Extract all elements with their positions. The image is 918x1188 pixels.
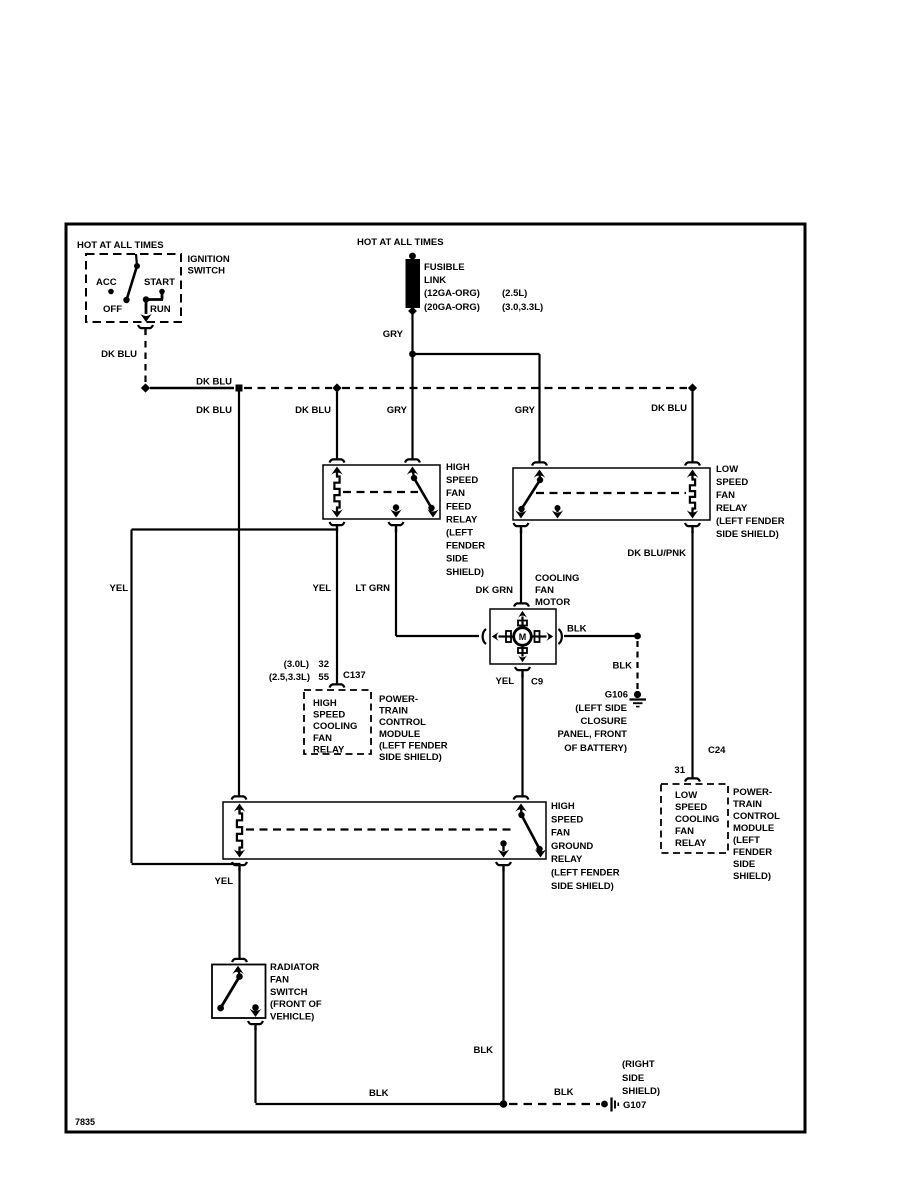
svg-text:(LEFT: (LEFT bbox=[446, 528, 473, 539]
connector C137 label bbox=[343, 670, 366, 681]
wire GRY branch to low speed relay bbox=[413, 354, 540, 463]
wire BLK radiator switch to splice bbox=[256, 1028, 502, 1104]
svg-text:SIDE: SIDE bbox=[446, 554, 468, 565]
wire LT GRN from feed relay to motor bbox=[396, 530, 479, 636]
relay K2 name label bbox=[716, 464, 785, 540]
svg-text:LOW: LOW bbox=[675, 790, 697, 801]
svg-text:HIGH: HIGH bbox=[551, 801, 575, 812]
svg-text:(LEFT SIDE: (LEFT SIDE bbox=[575, 703, 627, 714]
radiator fan switch output bbox=[250, 1004, 262, 1017]
node BLK splice bbox=[500, 1100, 508, 1108]
pin 31 label bbox=[674, 765, 685, 776]
ground G106 labels bbox=[558, 690, 629, 755]
connector at low speed relay coil bbox=[685, 462, 700, 465]
svg-text:MODULE: MODULE bbox=[733, 823, 774, 834]
svg-text:(2.5,3.3L): (2.5,3.3L) bbox=[269, 672, 310, 683]
label DK BLU (on horizontal wire) bbox=[196, 377, 232, 388]
svg-text:PANEL, FRONT: PANEL, FRONT bbox=[558, 729, 628, 740]
svg-text:FAN: FAN bbox=[446, 488, 465, 499]
svg-text:GROUND: GROUND bbox=[551, 841, 593, 852]
connector at low speed relay switch bbox=[532, 462, 547, 465]
svg-text:(20GA-ORG): (20GA-ORG) bbox=[424, 302, 480, 313]
svg-text:SHIELD): SHIELD) bbox=[733, 871, 771, 882]
svg-text:MODULE: MODULE bbox=[379, 729, 420, 740]
connector at motor top bbox=[514, 603, 529, 606]
wire DK BLU dashed bus to right bbox=[244, 387, 332, 389]
svg-text:OF BATTERY): OF BATTERY) bbox=[564, 743, 627, 754]
svg-text:HIGH: HIGH bbox=[313, 698, 337, 709]
wire BLK dashed to G106 bbox=[636, 641, 638, 690]
svg-text:FAN: FAN bbox=[551, 828, 570, 839]
PCM2 module name label bbox=[733, 787, 780, 882]
svg-text:FENDER: FENDER bbox=[733, 847, 772, 858]
svg-text:DK BLU: DK BLU bbox=[196, 377, 232, 388]
svg-text:COOLING: COOLING bbox=[535, 573, 579, 584]
wire YEL from motor to ground relay bbox=[521, 675, 523, 797]
svg-text:FAN: FAN bbox=[535, 585, 554, 596]
svg-text:G107: G107 bbox=[623, 1100, 646, 1111]
label LT GRN bbox=[355, 583, 390, 594]
svg-text:MOTOR: MOTOR bbox=[535, 597, 570, 608]
relay K1 dashed link bbox=[343, 491, 418, 493]
relay K3 coil bbox=[234, 804, 246, 858]
connector below radiator fan switch bbox=[248, 1021, 263, 1030]
svg-text:SPEED: SPEED bbox=[675, 802, 707, 813]
svg-text:COOLING: COOLING bbox=[675, 814, 719, 825]
PCM low speed cooling fan relay box (dashed) bbox=[661, 784, 728, 853]
motor right connector paren bbox=[559, 629, 562, 644]
svg-text:32: 32 bbox=[318, 659, 329, 670]
svg-text:(LEFT: (LEFT bbox=[733, 835, 760, 846]
label YEL and C9 bbox=[496, 676, 544, 688]
svg-text:SIDE SHIELD): SIDE SHIELD) bbox=[551, 881, 614, 892]
svg-text:SIDE: SIDE bbox=[733, 859, 755, 870]
connector below K2 coil bbox=[685, 523, 700, 533]
relay K1 HIGH SPEED FAN FEED RELAY box bbox=[323, 465, 440, 519]
node splice DK BLU at feed relay branch bbox=[332, 383, 341, 392]
diagram number 7835 bbox=[75, 1117, 95, 1127]
ignition switch RUN feed with arrow bbox=[140, 292, 163, 323]
svg-text:POWER-: POWER- bbox=[733, 787, 772, 798]
relay K3 HIGH SPEED FAN GROUND RELAY box bbox=[223, 802, 546, 859]
wire BLK from motor to G106 bbox=[564, 635, 638, 637]
svg-text:YEL: YEL bbox=[496, 676, 515, 687]
label COOLING FAN MOTOR bbox=[535, 573, 579, 608]
svg-text:C24: C24 bbox=[708, 745, 726, 756]
relay K2 dashed link bbox=[536, 492, 686, 494]
cooling fan motor M1 box bbox=[490, 609, 556, 664]
fusible link F1 bbox=[406, 253, 421, 316]
svg-text:DK BLU/PNK: DK BLU/PNK bbox=[627, 548, 686, 559]
svg-text:(3.0,3.3L): (3.0,3.3L) bbox=[502, 302, 543, 313]
node junction square DK BLU bbox=[236, 385, 243, 392]
node GRY splice bbox=[409, 351, 416, 358]
relay K3 name label bbox=[551, 801, 620, 892]
svg-text:IGNITION: IGNITION bbox=[188, 254, 230, 265]
ignition switch blade (B+ to OFF) bbox=[123, 254, 140, 303]
svg-text:(LEFT FENDER: (LEFT FENDER bbox=[379, 740, 448, 751]
svg-text:(2.5L): (2.5L) bbox=[502, 288, 527, 299]
svg-text:SWITCH: SWITCH bbox=[188, 266, 226, 277]
wire YEL from feed relay coil down to C137 bbox=[336, 530, 338, 685]
relay K1 output pin arrow bbox=[390, 504, 402, 517]
label C24 bbox=[708, 745, 726, 756]
svg-text:FUSIBLE: FUSIBLE bbox=[424, 262, 465, 273]
svg-text:OFF: OFF bbox=[103, 304, 122, 315]
svg-text:HOT AT ALL TIMES: HOT AT ALL TIMES bbox=[357, 237, 444, 248]
label HOT AT ALL TIMES (left) bbox=[77, 240, 164, 251]
connector below feed relay coil bbox=[330, 522, 345, 531]
ground G107 labels bbox=[622, 1059, 660, 1111]
relay K1 name label bbox=[446, 462, 485, 578]
wire GRY from fusible link bbox=[411, 314, 413, 354]
svg-text:FAN: FAN bbox=[313, 733, 332, 744]
pin labels 32 55 at C137 bbox=[269, 659, 330, 683]
ground G106 symbol bbox=[630, 691, 647, 707]
svg-text:BLK: BLK bbox=[554, 1087, 574, 1098]
label BLK (G106) bbox=[612, 661, 632, 672]
label DK BLU/PNK bbox=[627, 548, 686, 559]
relay K1 switch bbox=[407, 467, 439, 518]
svg-text:HIGH: HIGH bbox=[446, 462, 470, 473]
connector C24 arch into PCM bbox=[685, 778, 700, 781]
svg-text:7835: 7835 bbox=[75, 1117, 95, 1127]
wire BLK dashed to G107 bbox=[509, 1103, 600, 1105]
label YEL (to radiator switch) bbox=[215, 876, 234, 887]
relay K3 dashed link bbox=[246, 828, 515, 830]
PCM internal relay label bbox=[313, 698, 357, 755]
ground G107 symbol bbox=[601, 1098, 618, 1112]
svg-text:FENDER: FENDER bbox=[446, 541, 485, 552]
motor left connector paren bbox=[483, 629, 486, 644]
wire DK BLU to ground relay coil (long) bbox=[238, 392, 240, 797]
svg-text:SIDE: SIDE bbox=[622, 1073, 644, 1084]
connector C9 below motor bbox=[515, 667, 530, 677]
svg-text:DK BLU: DK BLU bbox=[295, 405, 331, 416]
svg-text:LOW: LOW bbox=[716, 464, 738, 475]
wire DK BLU dashed bus continues bbox=[342, 387, 687, 389]
wire YEL loop left branch bbox=[132, 530, 339, 865]
label YEL (left loop) bbox=[110, 583, 129, 594]
svg-text:55: 55 bbox=[318, 672, 329, 683]
node splice ignition DK BLU bbox=[141, 383, 150, 392]
ignition switch ACC contact bbox=[108, 289, 114, 295]
svg-text:GRY: GRY bbox=[515, 405, 536, 416]
svg-text:RELAY: RELAY bbox=[675, 838, 707, 849]
svg-text:TRAIN: TRAIN bbox=[379, 706, 408, 717]
svg-text:FAN: FAN bbox=[675, 826, 694, 837]
relay K3 switch bbox=[515, 804, 546, 858]
relay K2 switch bbox=[515, 470, 545, 519]
PCM module name label bbox=[379, 694, 448, 763]
svg-text:DK BLU: DK BLU bbox=[101, 349, 137, 360]
svg-text:CONTROL: CONTROL bbox=[733, 811, 780, 822]
connector below K3 output bbox=[496, 862, 511, 871]
relay K1 coil bbox=[331, 467, 343, 518]
svg-text:FAN: FAN bbox=[716, 490, 735, 501]
wire DK BLU to low speed relay coil bbox=[691, 392, 693, 463]
svg-text:BLK: BLK bbox=[369, 1088, 389, 1099]
svg-text:GRY: GRY bbox=[383, 329, 404, 340]
svg-text:RELAY: RELAY bbox=[446, 514, 478, 525]
svg-text:START: START bbox=[144, 277, 175, 288]
svg-text:SIDE SHIELD): SIDE SHIELD) bbox=[379, 752, 442, 763]
label DK GRN bbox=[476, 585, 514, 596]
label BLK (ground relay) bbox=[473, 1045, 493, 1056]
svg-text:SIDE SHIELD): SIDE SHIELD) bbox=[716, 529, 779, 540]
svg-text:CLOSURE: CLOSURE bbox=[581, 716, 627, 727]
svg-text:(LEFT FENDER: (LEFT FENDER bbox=[716, 516, 785, 527]
svg-text:DK GRN: DK GRN bbox=[476, 585, 514, 596]
connector at radiator fan switch bbox=[232, 959, 247, 962]
svg-text:RELAY: RELAY bbox=[551, 854, 583, 865]
label BLK (motor) bbox=[567, 624, 587, 635]
connector at feed relay switch bbox=[405, 459, 420, 462]
label GRY (fusible link) bbox=[383, 329, 404, 340]
svg-text:DK BLU: DK BLU bbox=[196, 405, 232, 416]
svg-text:C9: C9 bbox=[531, 677, 543, 688]
relay K2 output pin arrow bbox=[552, 505, 564, 519]
svg-text:COOLING: COOLING bbox=[313, 721, 357, 732]
fusible link labels bbox=[424, 262, 543, 313]
ignition switch box bbox=[86, 254, 181, 322]
ignition switch contact labels ACC START OFF RUN bbox=[96, 277, 175, 315]
svg-text:VEHICLE): VEHICLE) bbox=[270, 1012, 314, 1023]
svg-text:YEL: YEL bbox=[215, 876, 234, 887]
svg-text:RELAY: RELAY bbox=[313, 744, 345, 755]
ignition switch name label bbox=[188, 254, 230, 277]
svg-text:FEED: FEED bbox=[446, 501, 471, 512]
svg-text:TRAIN: TRAIN bbox=[733, 799, 762, 810]
wire DK GRN low speed relay to motor bbox=[520, 531, 522, 604]
svg-text:(LEFT FENDER: (LEFT FENDER bbox=[551, 868, 620, 879]
connector below feed relay output bbox=[389, 522, 404, 532]
svg-text:SPEED: SPEED bbox=[313, 710, 345, 721]
label HOT AT ALL TIMES (center) bbox=[357, 237, 444, 248]
radiator fan switch S2 box bbox=[212, 965, 266, 1019]
svg-text:RADIATOR: RADIATOR bbox=[270, 962, 319, 973]
svg-text:(3.0L): (3.0L) bbox=[284, 659, 309, 670]
motor internal arrows bbox=[492, 611, 553, 662]
connector at feed relay coil bbox=[330, 459, 345, 462]
PCM2 internal relay label bbox=[675, 790, 719, 849]
svg-text:SPEED: SPEED bbox=[446, 475, 478, 486]
svg-text:M: M bbox=[519, 632, 527, 642]
wire DK BLU to feed relay coil bbox=[336, 392, 338, 460]
connector C137 arch into PCM bbox=[330, 684, 345, 687]
svg-text:(RIGHT: (RIGHT bbox=[622, 1059, 655, 1070]
connector at ground relay switch bbox=[514, 796, 529, 799]
wire DK BLU/PNK from K2 coil to PCM C24 bbox=[691, 531, 693, 779]
label BLK (to G107) bbox=[554, 1087, 574, 1098]
svg-text:SPEED: SPEED bbox=[716, 477, 748, 488]
wire GRY down to feed relay bbox=[411, 354, 413, 460]
wire BLK ground relay down bbox=[502, 869, 504, 1102]
svg-text:YEL: YEL bbox=[313, 583, 332, 594]
svg-text:BLK: BLK bbox=[473, 1045, 493, 1056]
connector below K2 switch bbox=[514, 523, 529, 533]
label DK BLU (ignition output) bbox=[101, 349, 137, 360]
svg-text:SPEED: SPEED bbox=[551, 814, 583, 825]
svg-text:LT GRN: LT GRN bbox=[355, 583, 390, 594]
PCM high speed cooling fan relay box (dashed) bbox=[304, 690, 371, 754]
wire DK BLU dashed from ignition switch bbox=[144, 341, 146, 382]
svg-text:SWITCH: SWITCH bbox=[270, 987, 308, 998]
connector below K3 coil bbox=[232, 862, 247, 871]
svg-text:(FRONT OF: (FRONT OF bbox=[270, 999, 322, 1010]
node BLK at G106 drop bbox=[634, 633, 641, 640]
svg-text:YEL: YEL bbox=[110, 583, 129, 594]
radiator fan switch name label bbox=[270, 962, 322, 1023]
node splice DK BLU at low speed relay branch bbox=[688, 383, 697, 392]
relay K2 coil bbox=[687, 470, 699, 519]
cooling fan motor M1 symbol bbox=[506, 621, 540, 654]
svg-text:DK BLU: DK BLU bbox=[651, 403, 687, 414]
svg-text:RUN: RUN bbox=[150, 304, 171, 315]
svg-text:31: 31 bbox=[674, 765, 685, 776]
svg-text:POWER-: POWER- bbox=[379, 694, 418, 705]
svg-text:HOT AT ALL TIMES: HOT AT ALL TIMES bbox=[77, 240, 164, 251]
wire YEL ground relay to radiator fan switch bbox=[238, 869, 240, 959]
svg-text:SHIELD): SHIELD) bbox=[446, 567, 484, 578]
label BLK (radiator switch) bbox=[369, 1088, 389, 1099]
relay K3 output pin arrow bbox=[498, 840, 510, 857]
svg-text:(12GA-ORG): (12GA-ORG) bbox=[424, 288, 480, 299]
svg-text:G106: G106 bbox=[605, 690, 628, 701]
wire DK BLU solid horizontal bbox=[150, 387, 234, 390]
svg-text:C137: C137 bbox=[343, 670, 366, 681]
label YEL (to PCM) bbox=[313, 583, 332, 594]
svg-text:RELAY: RELAY bbox=[716, 503, 748, 514]
svg-text:GRY: GRY bbox=[387, 405, 408, 416]
svg-text:CONTROL: CONTROL bbox=[379, 717, 426, 728]
radiator fan switch blade bbox=[217, 966, 244, 1012]
svg-text:SHIELD): SHIELD) bbox=[622, 1086, 660, 1097]
ignition switch output connector bbox=[138, 325, 153, 335]
svg-text:BLK: BLK bbox=[567, 624, 587, 635]
svg-text:LINK: LINK bbox=[424, 275, 446, 286]
labels under DK BLU bus bbox=[196, 403, 687, 416]
relay K2 LOW SPEED FAN RELAY box bbox=[513, 468, 710, 520]
svg-text:FAN: FAN bbox=[270, 974, 289, 985]
ignition switch START contact bbox=[159, 289, 165, 295]
connector at ground relay coil bbox=[232, 796, 247, 799]
svg-text:ACC: ACC bbox=[96, 277, 117, 288]
svg-text:BLK: BLK bbox=[612, 661, 632, 672]
